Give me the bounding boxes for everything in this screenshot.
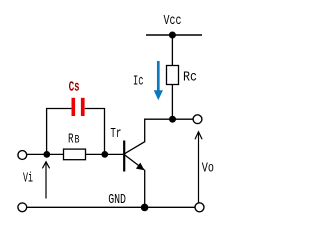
- junction collector node: [169, 116, 176, 123]
- junction input node: [43, 151, 50, 158]
- wire Rc to collector node: [171, 85, 173, 120]
- wire emitter to ground: [144, 170, 146, 207]
- terminal input bottom: [18, 203, 27, 212]
- svg-text:Vo: Vo: [202, 160, 214, 176]
- svg-text:Cs: Cs: [69, 79, 80, 95]
- wire base lead: [105, 153, 123, 155]
- svg-text:B: B: [75, 135, 80, 147]
- svg-text:R: R: [68, 132, 74, 148]
- wire collector lead: [125, 119, 173, 154]
- wire capacitor branch left: [47, 109, 72, 155]
- wire emitter lead diagonal: [125, 155, 145, 170]
- junction emitter-ground: [141, 204, 149, 212]
- arrow Vi: [42, 162, 49, 199]
- wire ground rail: [27, 206, 195, 208]
- wire Vcc to Rc: [171, 35, 173, 66]
- wire capacitor branch right: [85, 109, 105, 155]
- wire Vcc rail: [146, 34, 202, 36]
- capacitor Cs plates (red): [72, 98, 76, 116]
- svg-text:Vi: Vi: [23, 171, 33, 187]
- current arrow Ic (blue): [154, 61, 163, 100]
- svg-text:Vcc: Vcc: [164, 13, 182, 29]
- terminal output top: [193, 115, 202, 124]
- resistor Rc: [167, 66, 179, 85]
- wire input to RB: [27, 153, 64, 155]
- svg-text:GND: GND: [108, 192, 126, 208]
- wire collector node to output terminal: [173, 118, 194, 120]
- arrow Vo: [195, 132, 202, 203]
- svg-text:Ic: Ic: [133, 74, 144, 90]
- emitter arrowhead: [136, 163, 145, 171]
- resistor RB: [64, 149, 86, 160]
- svg-text:Tr: Tr: [110, 126, 121, 142]
- junction Vcc node: [169, 32, 176, 39]
- terminal input top: [18, 151, 27, 160]
- terminal output bottom: [195, 203, 204, 212]
- transistor Q1 bar: [123, 141, 125, 172]
- svg-text:Rc: Rc: [183, 69, 197, 85]
- junction base node: [101, 151, 108, 158]
- wire RB to base node: [86, 153, 105, 155]
